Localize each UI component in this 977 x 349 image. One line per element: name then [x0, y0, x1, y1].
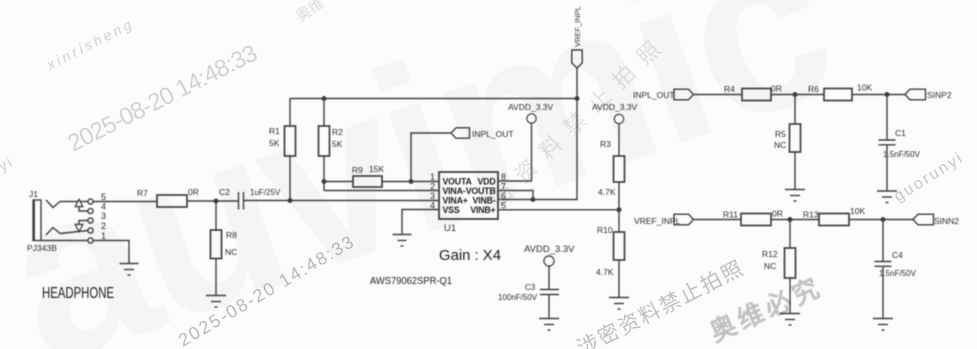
- svg-text:5K: 5K: [269, 138, 280, 148]
- wire AVDD to C3: [548, 266, 550, 289]
- svg-text:C4: C4: [892, 250, 903, 260]
- wire pin8 VDD to AVDD: [498, 124, 532, 182]
- wire R3 to node: [618, 182, 620, 210]
- wire node to R10: [618, 210, 620, 232]
- svg-text:VINA-: VINA-: [443, 186, 466, 196]
- J1 pin4 switch arrow: [75, 200, 88, 212]
- svg-text:R10: R10: [597, 225, 613, 235]
- resistor R8: [211, 230, 222, 259]
- svg-text:1: 1: [101, 231, 106, 241]
- svg-text:R7: R7: [137, 188, 148, 198]
- resistor R11: [741, 214, 771, 226]
- ground R12: [780, 314, 800, 326]
- wire R6 to SINP2: [852, 94, 905, 96]
- J1 pin3 switch arrow: [75, 221, 88, 232]
- resistor R7: [157, 195, 187, 207]
- svg-text:5: 5: [501, 201, 506, 211]
- svg-text:C1: C1: [895, 128, 906, 138]
- wire pin6 VINB- to VREF riser: [498, 68, 577, 200]
- wire R10 to ground: [618, 260, 620, 297]
- svg-text:5K: 5K: [332, 139, 343, 149]
- wire node A to R9: [324, 181, 353, 183]
- svg-text:6: 6: [501, 191, 506, 201]
- svg-text:PJ343B: PJ343B: [27, 243, 57, 253]
- resistor R12: [785, 248, 796, 278]
- svg-text:VREF_INPL: VREF_INPL: [573, 6, 582, 47]
- wire pin5 VINB+ to divider: [498, 209, 619, 211]
- port SINP2 flag: [905, 89, 926, 100]
- svg-text:4.7K: 4.7K: [596, 267, 614, 277]
- svg-text:Gain : X4: Gain : X4: [439, 247, 501, 264]
- node R12 tap: [788, 218, 792, 222]
- svg-text:AWS79062SPR-Q1: AWS79062SPR-Q1: [370, 275, 452, 287]
- port VREF_INPL top flag: [572, 50, 582, 68]
- svg-text:SINN2: SINN2: [934, 216, 959, 226]
- svg-text:U1: U1: [444, 223, 456, 234]
- svg-text:VOUTA: VOUTA: [443, 177, 473, 187]
- wire R1 upper: [289, 99, 291, 127]
- svg-text:8: 8: [501, 172, 506, 182]
- svg-text:100nF/50V: 100nF/50V: [498, 293, 538, 302]
- svg-text:C3: C3: [525, 283, 536, 292]
- svg-text:3: 3: [101, 211, 106, 221]
- svg-text:4.7K: 4.7K: [598, 187, 616, 197]
- svg-text:R11: R11: [723, 210, 738, 220]
- svg-text:1uF/25V: 1uF/25V: [250, 188, 281, 197]
- ground C3: [539, 319, 559, 331]
- wire flag to R11: [694, 219, 742, 221]
- wire top VREF rail: [290, 98, 577, 100]
- wire node B to INPL_OUT flag: [411, 133, 451, 182]
- svg-text:7: 7: [501, 182, 506, 192]
- svg-text:R4: R4: [724, 84, 735, 94]
- wire flag to R4: [694, 94, 743, 96]
- node C4 tap: [881, 218, 885, 222]
- wire C3 to ground: [548, 295, 550, 319]
- wire R11 to R13: [771, 219, 819, 221]
- svg-text:5: 5: [101, 192, 106, 202]
- svg-text:3: 3: [430, 191, 435, 201]
- svg-text:C2: C2: [219, 187, 230, 197]
- wire tip to pin5: [60, 201, 88, 203]
- svg-text:R3: R3: [600, 139, 611, 149]
- wire R9 to pin1: [382, 181, 439, 183]
- J1 ring contact: [46, 228, 60, 236]
- wire body to pin1: [41, 240, 88, 242]
- node R2 top: [322, 97, 326, 101]
- wire node to R12: [789, 220, 791, 249]
- svg-text:NC: NC: [225, 247, 237, 257]
- svg-text:R8: R8: [226, 230, 237, 240]
- svg-text:AVDD_3.3V: AVDD_3.3V: [508, 102, 554, 112]
- ground C1: [877, 191, 897, 203]
- node C1 tap: [885, 93, 889, 97]
- svg-text:R13: R13: [803, 210, 819, 220]
- ground U1 VSS: [393, 235, 412, 247]
- J1 pin 5 circle: [88, 199, 93, 204]
- J1 pin 4 circle: [88, 208, 93, 213]
- svg-text:2: 2: [430, 182, 435, 192]
- svg-text:1: 1: [430, 172, 435, 182]
- svg-text:J1: J1: [29, 189, 38, 199]
- node VREF rail tap: [575, 97, 579, 101]
- svg-text:VDD: VDD: [478, 177, 496, 187]
- svg-text:R9: R9: [352, 165, 363, 175]
- wire R5 to ground: [794, 152, 796, 189]
- svg-text:1.5nF/50V: 1.5nF/50V: [879, 269, 917, 278]
- wire C1 to ground: [886, 145, 888, 191]
- wire node to C4: [882, 220, 884, 262]
- node divider mid: [617, 208, 621, 212]
- connector J1 headphone jack body: [33, 200, 41, 241]
- power AVDD_3.3V C3: [544, 256, 554, 266]
- wire node to C1: [886, 95, 888, 140]
- svg-text:0R: 0R: [772, 209, 783, 219]
- J1 pin 2 circle: [88, 228, 93, 233]
- svg-text:VINB-: VINB-: [473, 196, 496, 206]
- J1 pin 1 circle: [88, 238, 93, 243]
- resistor R4: [742, 89, 771, 101]
- svg-text:R6: R6: [808, 84, 819, 94]
- port SINN2 flag: [913, 214, 934, 225]
- resistor R3: [614, 156, 625, 182]
- svg-text:HEADPHONE: HEADPHONE: [42, 285, 114, 302]
- schematic ink: [33, 50, 934, 330]
- capacitor C4: [875, 262, 892, 267]
- svg-text:VREF_INPL: VREF_INPL: [634, 216, 681, 226]
- wire R8 to ground: [215, 259, 217, 296]
- ground R8: [206, 296, 226, 308]
- wire R2 lower: [323, 156, 325, 191]
- svg-text:R2: R2: [332, 127, 343, 137]
- svg-text:R5: R5: [775, 129, 786, 139]
- svg-text:VINB+: VINB+: [470, 205, 495, 215]
- wire R4 to R6: [771, 94, 824, 96]
- svg-text:NC: NC: [774, 140, 786, 150]
- svg-text:NC: NC: [764, 261, 776, 271]
- resistor R6: [824, 89, 852, 101]
- node R1 bottom: [288, 199, 292, 203]
- node B R9-VOUTA: [409, 180, 413, 184]
- port INPL_OUT right flag: [674, 89, 694, 100]
- wire C2 to pin3: [244, 200, 440, 202]
- wire pin1 to ground: [93, 241, 129, 264]
- ground R5: [785, 190, 805, 202]
- wire R13 to SINN2: [849, 219, 913, 221]
- svg-text:SINP2: SINP2: [927, 90, 952, 100]
- port VREF_INPL right flag: [674, 214, 694, 225]
- svg-text:0R: 0R: [771, 84, 782, 94]
- power AVDD_3.3V R3: [614, 114, 623, 123]
- resistor R5: [790, 124, 801, 152]
- J1 pin 3 circle: [88, 218, 93, 223]
- op-amp U1 box: [439, 172, 498, 219]
- svg-text:0R: 0R: [188, 187, 199, 197]
- wire R7 to C2: [187, 200, 238, 202]
- wire node A to pin2: [324, 190, 439, 192]
- wire AVDD to R3: [618, 124, 620, 156]
- node R8 junction: [214, 199, 218, 203]
- port INPL_OUT flag: [451, 128, 470, 138]
- ground jack: [120, 264, 139, 276]
- capacitor C3: [540, 290, 559, 295]
- svg-text:2: 2: [101, 221, 106, 231]
- resistor R2: [319, 126, 330, 156]
- capacitor C2: [239, 192, 244, 210]
- svg-text:INPL_OUT: INPL_OUT: [472, 129, 514, 139]
- wire ring to pin2: [60, 231, 88, 234]
- svg-text:4: 4: [101, 202, 106, 212]
- wire pin4 VSS to ground: [402, 210, 439, 235]
- wire R2 upper: [323, 99, 325, 127]
- node VOUTB-VINB: [531, 198, 535, 202]
- capacitor C1: [879, 140, 896, 145]
- svg-text:R1: R1: [269, 126, 280, 136]
- svg-text:VOUTB: VOUTB: [466, 186, 496, 196]
- svg-text:VSS: VSS: [443, 205, 460, 215]
- wire pin7 VOUTB: [498, 191, 533, 200]
- wire node to R5: [794, 95, 796, 125]
- svg-text:10K: 10K: [850, 206, 865, 216]
- svg-text:15K: 15K: [369, 164, 384, 174]
- wire node to R8: [215, 201, 217, 230]
- node A R2-R9: [322, 180, 326, 184]
- svg-text:4: 4: [430, 201, 435, 211]
- wire C4 to ground: [882, 266, 884, 318]
- wire pin5 to R7: [93, 201, 157, 203]
- svg-text:VINA+: VINA+: [443, 196, 468, 206]
- ground C4: [873, 319, 893, 331]
- J1 tip contact: [46, 200, 60, 208]
- resistor R9: [353, 176, 382, 187]
- svg-text:AVDD_3.3V: AVDD_3.3V: [592, 102, 638, 112]
- wire R1 lower: [289, 156, 291, 201]
- ground R10: [609, 298, 629, 310]
- svg-text:1.5nF/50V: 1.5nF/50V: [883, 150, 921, 159]
- power AVDD_3.3V U1: [527, 114, 536, 123]
- svg-text:AVDD_3.3V: AVDD_3.3V: [524, 244, 575, 255]
- svg-text:10K: 10K: [857, 83, 872, 93]
- svg-text:R12: R12: [762, 249, 778, 259]
- resistor R10: [614, 232, 625, 260]
- node R5 tap: [793, 93, 797, 97]
- svg-text:INPL_OUT: INPL_OUT: [633, 90, 675, 100]
- resistor R1: [285, 126, 296, 156]
- wire R12 to ground: [789, 278, 791, 313]
- resistor R13: [819, 214, 849, 226]
